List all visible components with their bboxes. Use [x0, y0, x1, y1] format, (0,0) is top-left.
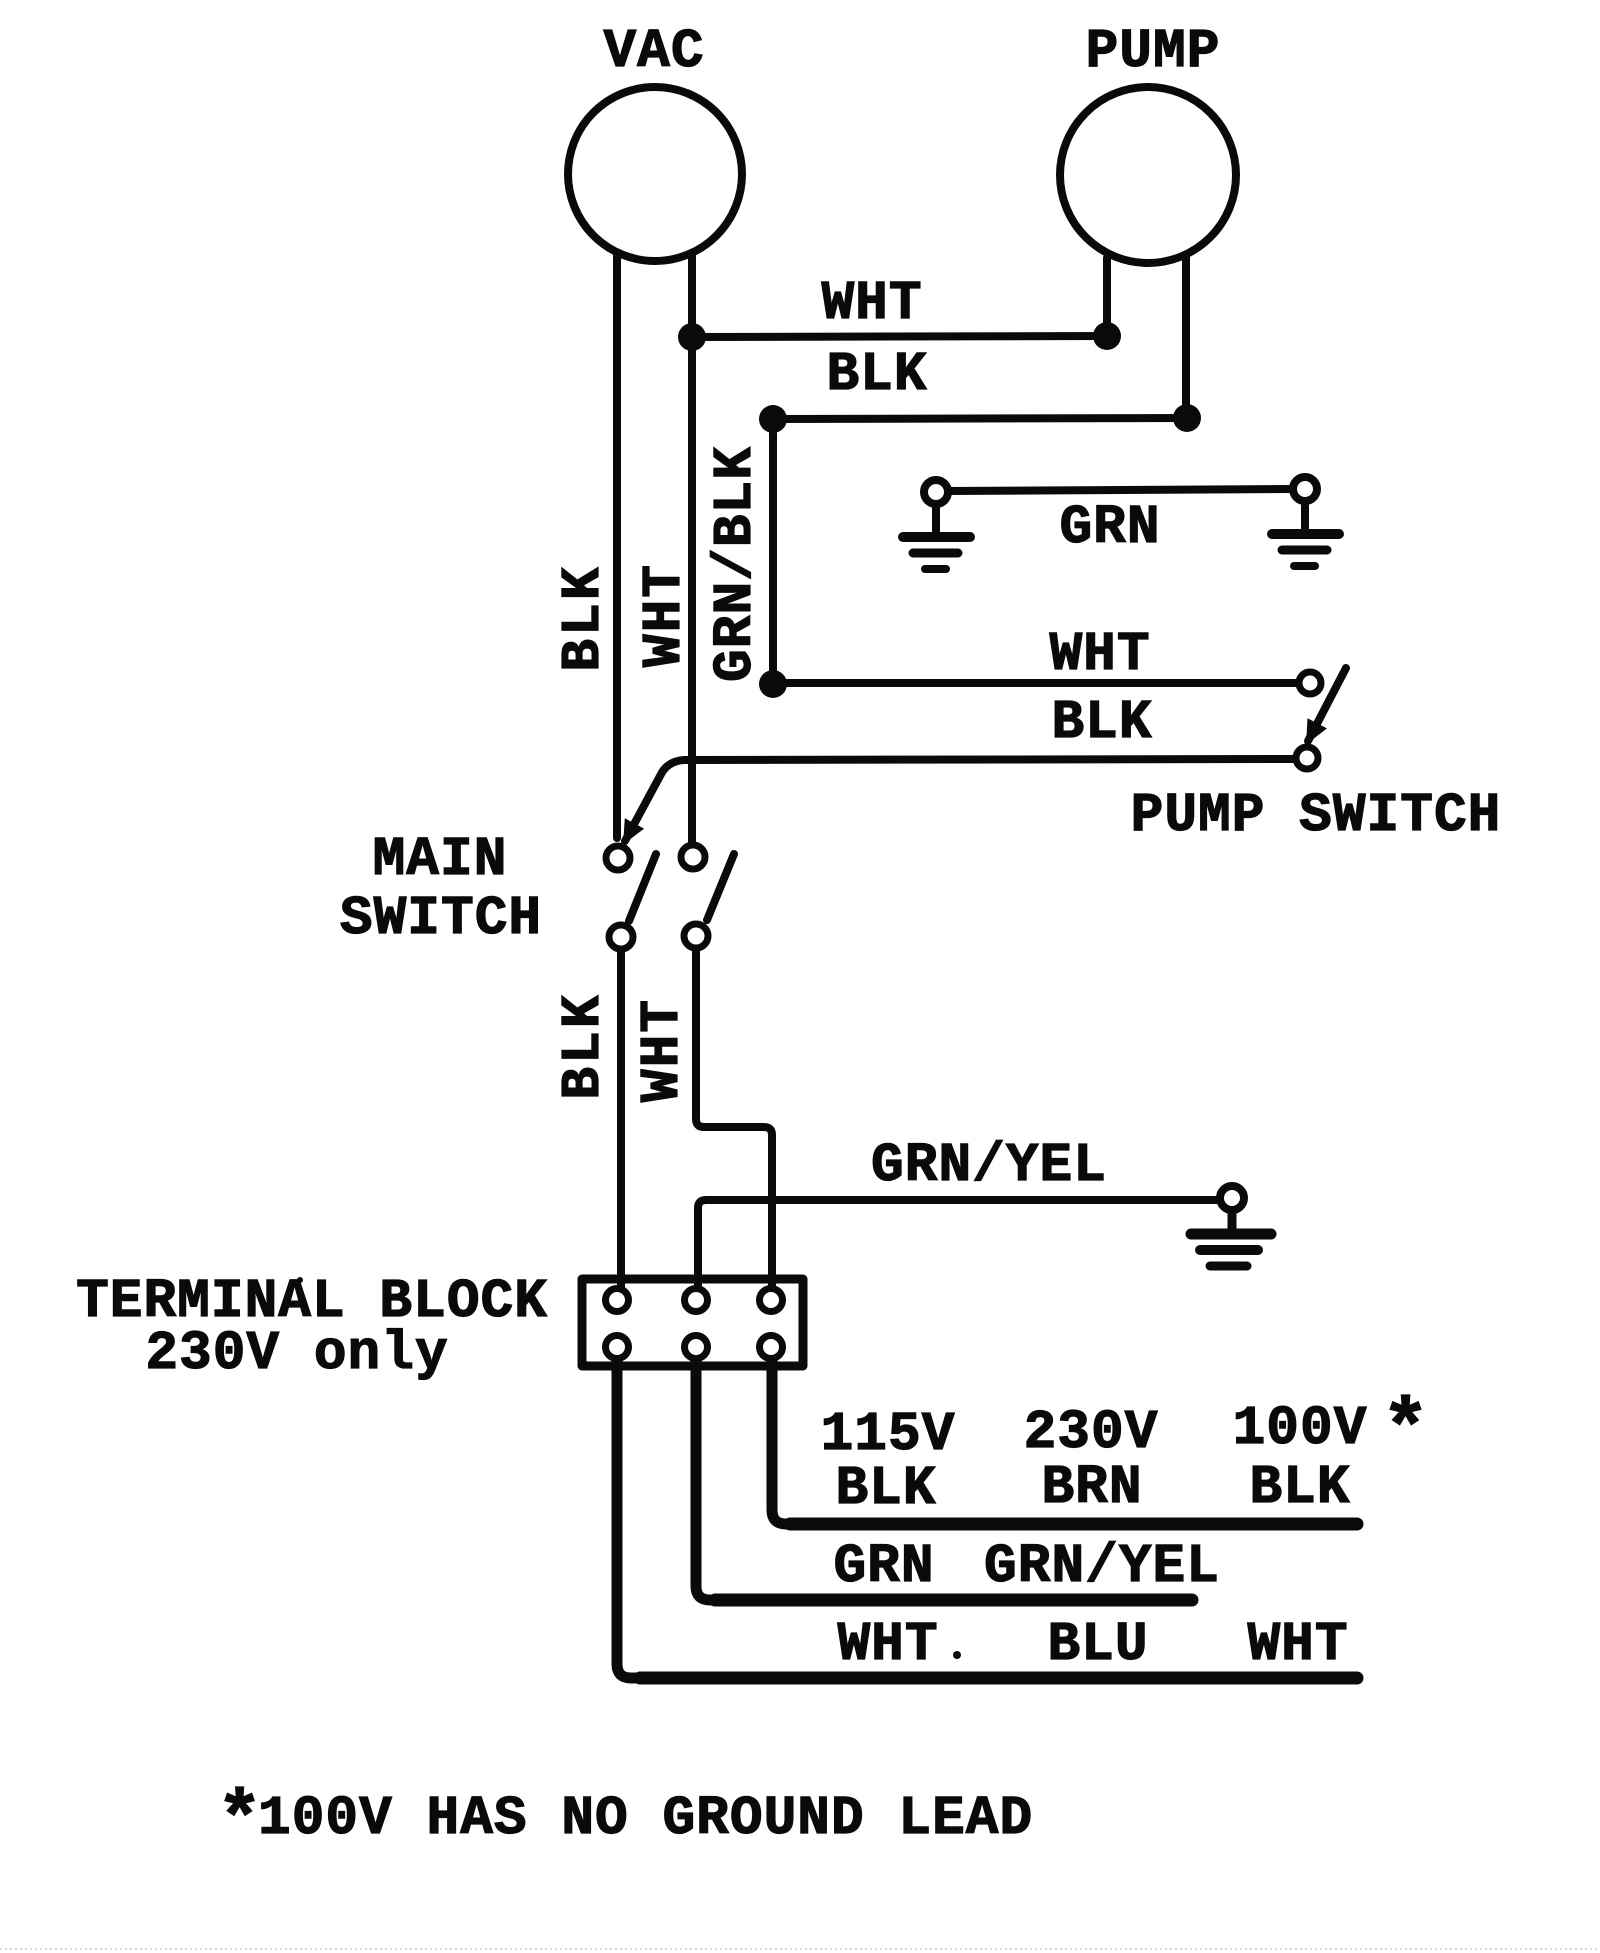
svg-text:BLU: BLU: [1047, 1615, 1148, 1676]
svg-text:230V: 230V: [1024, 1403, 1159, 1464]
svg-text:230V only: 230V only: [145, 1324, 448, 1385]
svg-text:WHT: WHT: [821, 274, 922, 335]
svg-text:BLK: BLK: [554, 564, 615, 671]
svg-text:WHT: WHT: [1049, 625, 1150, 686]
svg-text:BLK: BLK: [826, 345, 927, 406]
svg-text:115V: 115V: [821, 1405, 956, 1466]
svg-text:*: *: [217, 1779, 264, 1865]
svg-text:GRN/YEL: GRN/YEL: [984, 1537, 1220, 1598]
svg-text:WHT: WHT: [837, 1615, 938, 1676]
svg-text:MAIN: MAIN: [373, 830, 508, 891]
svg-text:BLK: BLK: [835, 1459, 936, 1520]
svg-text:BLK: BLK: [554, 992, 615, 1099]
svg-text:BLK: BLK: [1249, 1458, 1350, 1519]
svg-text:BLK: BLK: [1051, 693, 1152, 754]
svg-text:WHT: WHT: [635, 563, 696, 667]
svg-text:VAC: VAC: [603, 22, 704, 83]
svg-text:GRN/YEL: GRN/YEL: [871, 1136, 1107, 1197]
svg-text:PUMP SWITCH: PUMP SWITCH: [1131, 786, 1502, 847]
svg-text:GRN/BLK: GRN/BLK: [706, 446, 767, 682]
svg-text:100V HAS NO GROUND LEAD: 100V HAS NO GROUND LEAD: [258, 1789, 1033, 1850]
svg-text:WHT: WHT: [1247, 1615, 1348, 1676]
svg-text:GRN: GRN: [833, 1537, 934, 1598]
svg-text:GRN: GRN: [1059, 498, 1160, 559]
svg-text:BRN: BRN: [1041, 1458, 1142, 1519]
svg-text:SWITCH: SWITCH: [340, 889, 542, 950]
svg-text:WHT: WHT: [633, 998, 694, 1102]
svg-text:PUMP: PUMP: [1086, 22, 1221, 83]
svg-text:*: *: [1381, 1387, 1430, 1478]
svg-text:100V: 100V: [1233, 1399, 1368, 1460]
